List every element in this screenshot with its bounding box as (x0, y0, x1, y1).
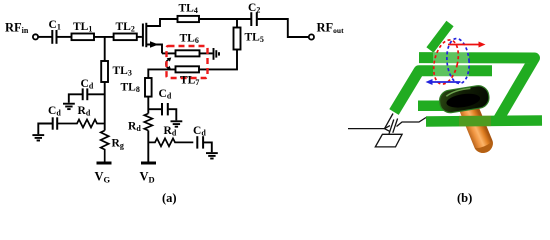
resistor TL7 box (176, 66, 200, 72)
trace T3 middle bar (418, 101, 464, 112)
wire Cd gate lower to ground (38, 124, 52, 135)
switch arrow between TL6 and TL7 (166, 59, 169, 68)
capacitor Cd gate upper (83, 88, 88, 100)
flux ellipse red dashed (430, 37, 463, 86)
trace T2 with left via (394, 71, 492, 112)
transistor Q1 channel bar (145, 23, 147, 47)
wire TL3 down through gate bias nodes (104, 82, 106, 131)
resistor TL2 box (114, 34, 137, 41)
resistor Rd gate horizontal zigzag (58, 120, 105, 128)
trace T1 with right via Z (419, 58, 535, 120)
trace T4 bottom bar over cylinder (426, 121, 542, 122)
wire TL2 to gate (137, 36, 142, 38)
resistor TL5 box (234, 28, 241, 50)
svg-text:VD: VD (140, 170, 155, 185)
svg-text:TL7: TL7 (180, 75, 199, 88)
ground below Cd gate lower (32, 135, 44, 140)
svg-text:Rg: Rg (112, 138, 124, 151)
ground below Cd drain lower (206, 153, 218, 158)
wire TL8 down to drain bias node (147, 97, 149, 114)
terminal bar VG (97, 162, 112, 165)
transistor Q1 drain wire (146, 19, 177, 26)
svg-text:Cd: Cd (193, 125, 206, 138)
svg-text:TL5: TL5 (245, 32, 264, 45)
metal plate dark blob (438, 84, 490, 114)
capacitor Cd drain upper (162, 103, 168, 115)
capacitor C2 (251, 12, 256, 26)
resistor TL6 box (176, 50, 200, 56)
wire TL5 down to TL7 output (200, 50, 238, 70)
wire Cd to ground (169, 109, 177, 120)
port plane parallelogram (375, 134, 402, 147)
ground right of TL6 (214, 48, 220, 60)
wire Cd lower to ground (204, 142, 212, 152)
current arrow blue (426, 79, 461, 85)
svg-text:C2: C2 (248, 2, 260, 15)
port feed line art (348, 114, 426, 147)
svg-text:(a): (a) (162, 191, 177, 205)
svg-text:Cd: Cd (48, 105, 61, 118)
svg-text:TL6: TL6 (180, 33, 199, 46)
wire Cd gate upper to ground (69, 94, 83, 103)
wire TL4 to C2 with TL5 junction (199, 18, 251, 20)
svg-text:Cd: Cd (81, 78, 94, 91)
transistor Q1 source wire (146, 45, 162, 54)
svg-text:Rd: Rd (78, 105, 91, 118)
svg-text:TL2: TL2 (116, 21, 135, 34)
current arrow red (448, 42, 486, 48)
wire TL6 to ground (200, 52, 213, 54)
cylinder showing through T4 (459, 116, 491, 127)
gap plate 1 (389, 120, 394, 134)
wire TL7 to TL8 (148, 69, 175, 78)
node RF_out port (309, 34, 314, 39)
wire C2 to RF_out port (258, 19, 309, 37)
flux ellipse blue dashed (445, 38, 471, 85)
svg-text:RFout: RFout (317, 21, 345, 36)
svg-text:TL8: TL8 (121, 82, 140, 95)
box TL6 TL7 red dashed (167, 46, 208, 78)
wire junction down to TL3 (104, 37, 106, 61)
feed diagonal from green (385, 114, 394, 129)
feed arrow notch (385, 126, 391, 132)
svg-text:C1: C1 (49, 19, 61, 32)
wire node to Cd drain (148, 108, 161, 110)
resistor Rd horizontal zigzag (148, 138, 193, 146)
ground below Cd drain upper (171, 121, 183, 126)
wire node to Cd gate upper (88, 93, 105, 95)
terminal bar VD (141, 162, 156, 165)
wire C1 to TL1 (58, 36, 72, 38)
svg-text:TL3: TL3 (113, 65, 132, 78)
capacitor Cd gate lower (53, 117, 58, 129)
resistor TL4 box (178, 16, 200, 22)
capacitor Cd drain lower (197, 136, 203, 148)
resistor TL1 box (72, 34, 95, 41)
feed diagonal top (430, 24, 450, 51)
flux light band (433, 52, 469, 90)
feed wire horizontal (348, 128, 385, 130)
svg-text:(b): (b) (457, 191, 472, 205)
capacitor C1 (52, 30, 56, 44)
node RF_in port (33, 34, 38, 39)
via cylinder orange (456, 94, 493, 153)
svg-text:TL1: TL1 (73, 21, 92, 34)
gap plate 2 (393, 119, 398, 133)
ground below Cd gate upper (63, 104, 75, 109)
resistor Rg vertical zigzag (101, 131, 109, 162)
transistor Q1 gate bar (142, 24, 144, 47)
svg-text:TL4: TL4 (179, 3, 198, 16)
svg-text:RFin: RFin (5, 21, 29, 36)
svg-text:VG: VG (95, 170, 111, 185)
wire Rd to VD node (147, 131, 149, 162)
svg-text:Rd: Rd (128, 121, 141, 134)
resistor TL3 box (101, 61, 108, 82)
resistor TL8 box (145, 78, 152, 97)
labels circuit (5, 2, 472, 205)
transistor Q1 source arrow (150, 41, 159, 48)
resistor Rd vertical zigzag (144, 114, 152, 131)
wire TL1 to TL2 with junction (94, 36, 114, 38)
wire junction down to TL5 (236, 19, 238, 28)
wire source to TL6 (162, 52, 176, 54)
wire port to C1 (38, 36, 51, 38)
feed step line (397, 118, 427, 127)
svg-text:Cd: Cd (159, 88, 172, 101)
